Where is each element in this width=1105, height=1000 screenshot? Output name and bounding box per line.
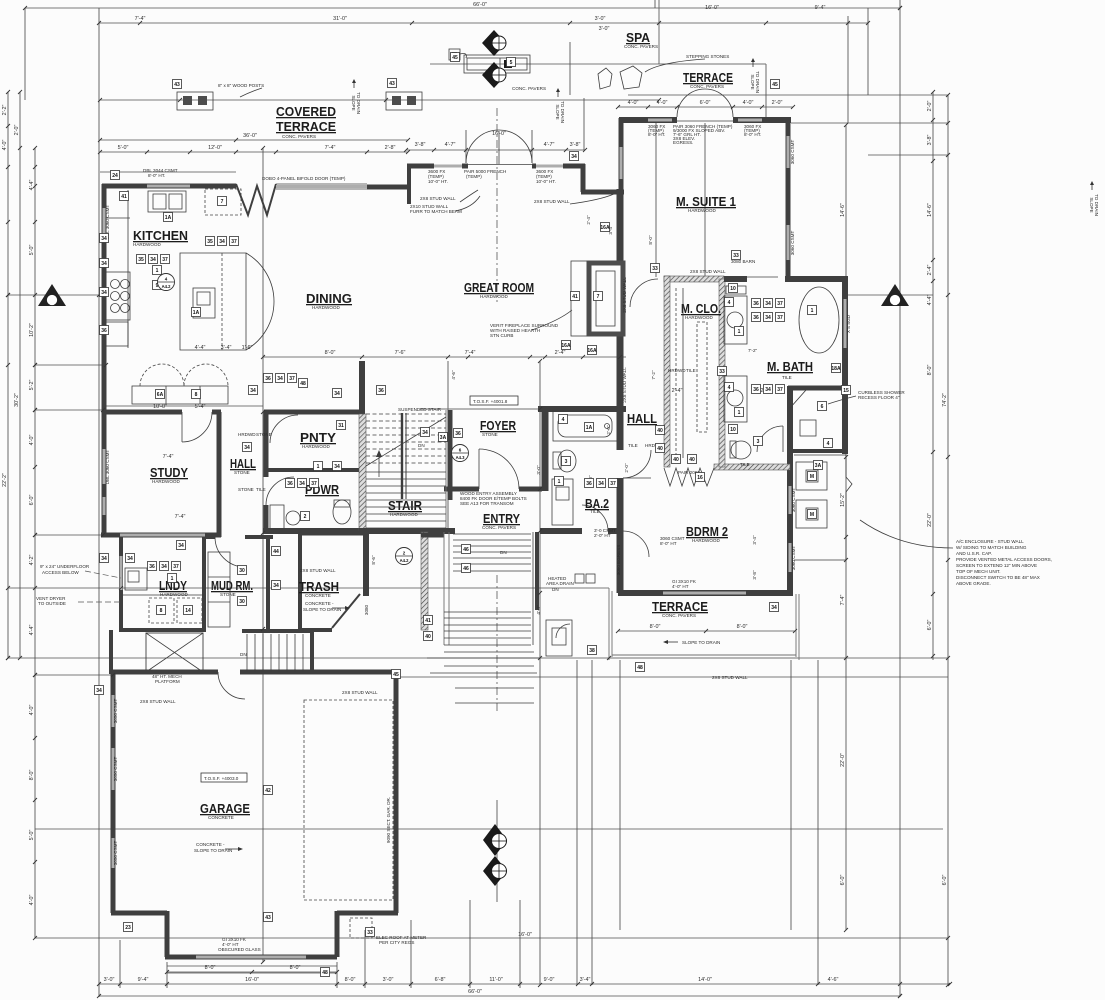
svg-text:7'-4": 7'-4" [325,145,336,151]
svg-text:3060 CSMT: 3060 CSMT [790,231,795,256]
svg-text:SLOPE: SLOPE [750,74,755,89]
svg-text:15: 15 [843,388,849,394]
svg-text:TO DRAIN: TO DRAIN [1094,194,1099,216]
svg-text:2'-8": 2'-8" [385,145,396,151]
svg-text:10'-0": 10'-0" [153,404,167,410]
svg-text:43: 43 [265,915,271,921]
svg-text:4'-0": 4'-0" [2,140,8,151]
svg-text:5: 5 [510,60,513,66]
svg-text:3050 CSMT: 3050 CSMT [113,841,118,866]
svg-text:14: 14 [185,608,191,614]
svg-text:48: 48 [322,970,328,976]
svg-text:30'-2": 30'-2" [14,393,20,407]
svg-text:W/ SIDING TO MATCH BUILDING: W/ SIDING TO MATCH BUILDING [956,545,1027,550]
svg-text:8: 8 [160,608,163,614]
svg-text:34: 34 [598,481,604,487]
svg-text:AREA DRAIN: AREA DRAIN [546,581,574,586]
svg-text:FOYER: FOYER [480,418,516,433]
svg-text:ACCESS BELOW: ACCESS BELOW [42,570,79,575]
svg-text:3080: 3080 [364,604,369,615]
svg-text:48: 48 [637,665,643,671]
svg-text:HARDWOOD: HARDWOOD [390,512,418,517]
svg-text:8'-0": 8'-0" [325,350,336,356]
svg-text:3'-0": 3'-0" [383,977,394,983]
svg-text:1A: 1A [165,215,172,221]
svg-text:1: 1 [738,329,741,335]
svg-text:TO DRAIN: TO DRAIN [560,101,565,123]
svg-text:X'S SGD: X'S SGD [846,314,851,333]
svg-text:3: 3 [565,459,568,465]
svg-text:34: 34 [101,261,107,267]
svg-text:MUD RM.: MUD RM. [211,578,253,593]
svg-text:2'-0": 2'-0" [772,100,783,106]
svg-text:4'-6": 4'-6" [451,370,456,380]
svg-text:HRDWD: HRDWD [668,368,686,373]
svg-text:6'-8": 6'-8" [435,977,446,983]
svg-text:2'-0": 2'-0" [14,125,20,136]
svg-text:DN: DN [418,443,425,448]
svg-text:45: 45 [393,672,399,678]
svg-text:34: 34 [277,376,283,382]
svg-text:TILE: TILE [590,509,600,514]
svg-text:ENTRY: ENTRY [483,511,520,526]
svg-text:CONCRETE -: CONCRETE - [305,601,334,606]
svg-text:36: 36 [101,328,107,334]
svg-text:16'-0": 16'-0" [245,977,259,983]
svg-text:STONE: STONE [234,470,250,475]
svg-text:36: 36 [149,564,155,570]
svg-text:SLOPE: SLOPE [555,104,560,119]
svg-text:7'-4": 7'-4" [163,454,174,460]
svg-text:(TEMP): (TEMP) [466,174,482,179]
svg-text:SEE A13 FOR TRANSOM: SEE A13 FOR TRANSOM [460,501,514,506]
svg-text:36: 36 [378,388,384,394]
svg-text:T.O.S.F. +4001.8: T.O.S.F. +4001.8 [473,399,508,404]
svg-text:34: 34 [765,315,771,321]
svg-text:37: 37 [311,481,317,487]
svg-text:36: 36 [265,376,271,382]
svg-text:4'-7": 4'-7" [544,142,555,148]
svg-text:2'-4": 2'-4" [672,388,683,394]
svg-text:STEPPING STONES: STEPPING STONES [686,54,729,59]
svg-text:36: 36 [753,315,759,321]
svg-text:PNTY: PNTY [300,430,336,445]
svg-text:4'-0": 4'-0" [29,435,35,446]
svg-text:10: 10 [730,286,736,292]
svg-text:5'-0": 5'-0" [118,145,129,151]
svg-text:36: 36 [586,481,592,487]
svg-text:16A: 16A [600,225,610,231]
svg-text:TOP OF MECH UNIT.: TOP OF MECH UNIT. [956,569,1001,574]
svg-text:46: 46 [463,566,469,572]
svg-text:3A: 3A [815,463,822,469]
svg-text:24: 24 [112,173,118,179]
svg-text:BDRM 2: BDRM 2 [686,524,728,539]
svg-text:HARDWOOD: HARDWOOD [302,444,330,449]
svg-text:HRDWD: HRDWD [238,432,256,437]
svg-text:4'-0": 4'-0" [657,100,668,106]
svg-text:14'-6": 14'-6" [840,203,846,217]
svg-text:CONC. PAVERS: CONC. PAVERS [624,44,658,49]
svg-text:2'-4": 2'-4" [927,265,933,276]
svg-text:RECESS FLOOR 4": RECESS FLOOR 4" [858,395,900,400]
svg-text:2: 2 [304,514,307,520]
svg-text:TILE: TILE [256,487,266,492]
svg-text:14'-0": 14'-0" [698,977,712,983]
svg-text:18A: 18A [831,366,841,372]
svg-text:14'-6": 14'-6" [927,203,933,217]
svg-text:CONC. PAVERS: CONC. PAVERS [512,86,546,91]
svg-text:33: 33 [652,266,658,272]
svg-text:M. BATH: M. BATH [767,359,813,374]
svg-text:40: 40 [689,457,695,463]
svg-text:2'-0": 2'-0" [927,101,933,112]
svg-text:35: 35 [207,239,213,245]
svg-text:CONCRETE -: CONCRETE - [196,842,225,847]
svg-text:36: 36 [287,481,293,487]
svg-text:37: 37 [289,376,295,382]
svg-text:HARDWOOD: HARDWOOD [685,315,713,320]
svg-text:HARDWOOD: HARDWOOD [480,294,508,299]
svg-text:46: 46 [463,547,469,553]
svg-text:DN: DN [240,652,247,657]
svg-text:1: 1 [811,308,814,314]
svg-text:8'-0" HT: 8'-0" HT [660,541,677,546]
svg-text:7'-4": 7'-4" [840,595,846,606]
svg-text:SPA: SPA [626,30,651,45]
svg-text:48: 48 [300,381,306,387]
svg-text:HARDWOOD: HARDWOOD [152,479,180,484]
svg-text:37: 37 [173,564,179,570]
svg-text:T.O.S.F. +4003.0: T.O.S.F. +4003.0 [204,776,239,781]
svg-text:34: 34 [334,464,340,470]
svg-text:3'-0": 3'-0" [536,465,541,475]
svg-text:STONE: STONE [482,432,498,437]
svg-text:34: 34 [765,301,771,307]
svg-text:16'-0": 16'-0" [518,932,532,938]
svg-text:3060 CSMT: 3060 CSMT [791,546,796,571]
svg-text:3'-8": 3'-8" [752,570,757,580]
svg-text:10'-0" HT.: 10'-0" HT. [428,179,448,184]
svg-text:M. SUITE 1: M. SUITE 1 [676,194,736,209]
svg-text:TERRACE: TERRACE [683,70,733,85]
svg-text:CONC. PAVERS: CONC. PAVERS [282,134,316,139]
svg-text:16A: 16A [587,348,597,354]
svg-text:9" x 24" UNDERFLOOR: 9" x 24" UNDERFLOOR [40,564,90,569]
svg-text:TERRACE: TERRACE [276,119,336,134]
svg-text:10'-2": 10'-2" [29,323,35,337]
svg-text:34: 34 [150,257,156,263]
svg-text:8'-0": 8'-0" [650,624,661,630]
svg-text:7'-4": 7'-4" [175,514,186,520]
svg-text:M: M [810,512,814,518]
svg-text:HALL: HALL [230,456,256,471]
svg-text:30: 30 [239,568,245,574]
svg-text:STUDY: STUDY [150,465,188,480]
svg-text:22'-0": 22'-0" [840,753,846,767]
svg-text:12'-0": 12'-0" [208,145,222,151]
svg-text:CONC. PAVERS: CONC. PAVERS [482,525,516,530]
svg-text:PROVIDE VENTED METAL ACCESS DO: PROVIDE VENTED METAL ACCESS DOORS, [956,557,1052,562]
svg-text:37: 37 [777,301,783,307]
svg-text:7'-2": 7'-2" [651,370,656,380]
svg-text:TILE: TILE [740,462,750,467]
svg-text:STONE: STONE [220,592,236,597]
svg-text:34: 34 [161,564,167,570]
svg-text:3'-8": 3'-8" [570,142,581,148]
svg-text:CONCRETE: CONCRETE [305,593,331,598]
svg-text:7: 7 [597,294,600,300]
svg-text:34: 34 [101,236,107,242]
svg-text:2X8 STUD WALL: 2X8 STUD WALL [534,199,570,204]
svg-text:4: 4 [728,385,731,391]
svg-text:4: 4 [827,441,830,447]
svg-text:37: 37 [777,315,783,321]
svg-text:TO DRAIN: TO DRAIN [356,92,361,114]
svg-text:A/C ENCLOSURE - STUD WALL: A/C ENCLOSURE - STUD WALL [956,539,1024,544]
svg-text:4'-2": 4'-2" [29,555,35,566]
svg-text:3: 3 [757,439,760,445]
svg-text:DN: DN [500,550,507,555]
svg-text:44: 44 [273,549,279,555]
svg-text:34: 34 [422,430,428,436]
svg-text:5'-0": 5'-0" [29,830,35,841]
svg-text:4'-0": 4'-0" [536,605,541,615]
svg-text:HARDWOOD: HARDWOOD [692,538,720,543]
svg-text:15'-2": 15'-2" [840,493,846,507]
svg-text:OBSCURED GLASS: OBSCURED GLASS [218,947,261,952]
svg-text:5'-4": 5'-4" [195,404,206,410]
svg-text:SUSPENDED STAIR: SUSPENDED STAIR [398,407,442,412]
svg-text:34: 34 [178,543,184,549]
svg-text:31'-0": 31'-0" [333,16,347,22]
svg-text:34: 34 [771,605,777,611]
svg-text:4'-7": 4'-7" [445,142,456,148]
svg-text:3060 CSMT: 3060 CSMT [790,140,795,165]
svg-text:DISCONNECT SWITCH TO BE 48" MA: DISCONNECT SWITCH TO BE 48" MAX [956,575,1040,580]
svg-text:34: 34 [273,583,279,589]
svg-text:3050 CSMT: 3050 CSMT [113,757,118,782]
svg-text:16A: 16A [561,343,571,349]
svg-text:2X8 STUD WALL: 2X8 STUD WALL [622,277,627,313]
svg-text:TO DRAIN: TO DRAIN [755,71,760,93]
svg-text:2X8 STUD WALL: 2X8 STUD WALL [140,699,176,704]
svg-text:3'-8": 3'-8" [927,135,933,146]
svg-text:TILE: TILE [628,443,638,448]
svg-text:4: 4 [562,417,565,423]
svg-text:4'-4": 4'-4" [29,180,35,191]
svg-text:41: 41 [121,194,127,200]
svg-text:2X8 STUD WALL: 2X8 STUD WALL [622,367,627,403]
svg-text:4'-0": 4'-0" [29,705,35,716]
svg-text:8'-0": 8'-0" [29,770,35,781]
svg-text:36: 36 [455,431,461,437]
svg-text:40: 40 [657,428,663,434]
svg-text:5'-0": 5'-0" [29,245,35,256]
svg-text:3060 CSMT: 3060 CSMT [791,488,796,513]
svg-text:8'-0": 8'-0" [648,235,653,245]
svg-text:TERRACE: TERRACE [652,599,708,614]
svg-text:TILE: TILE [686,368,696,373]
svg-text:4'-4": 4'-4" [29,625,35,636]
svg-text:HALL: HALL [627,411,657,426]
svg-text:TO OUTSIDE: TO OUTSIDE [38,601,66,606]
svg-text:FURR TO MATCH BEAM: FURR TO MATCH BEAM [410,209,462,214]
svg-text:7'-4": 7'-4" [135,16,146,22]
svg-text:34: 34 [101,556,107,562]
svg-text:STN CURB: STN CURB [490,333,513,338]
svg-text:2'-2": 2'-2" [2,105,8,116]
svg-text:34: 34 [96,688,102,694]
svg-text:A4.2: A4.2 [162,284,172,289]
svg-text:3'-0": 3'-0" [104,977,115,983]
svg-text:TRASH: TRASH [299,579,339,594]
svg-text:GARAGE: GARAGE [200,801,250,816]
svg-text:34: 34 [127,556,133,562]
svg-text:2'-0": 2'-0" [624,463,629,473]
svg-text:8'-0": 8'-0" [290,965,301,971]
svg-text:9090 SECT. GAR. DR.: 9090 SECT. GAR. DR. [386,797,391,843]
svg-text:6'-0": 6'-0" [29,495,35,506]
svg-text:4: 4 [728,300,731,306]
svg-text:6'-0": 6'-0" [700,100,711,106]
svg-text:34: 34 [250,388,256,394]
svg-text:34: 34 [244,445,250,451]
svg-text:TILE: TILE [782,375,792,380]
svg-text:8'-0": 8'-0" [737,624,748,630]
svg-text:34: 34 [299,481,305,487]
svg-text:HARDWOOD: HARDWOOD [688,208,716,213]
svg-text:10: 10 [730,427,736,433]
svg-text:37: 37 [231,239,237,245]
svg-text:SCREEN TO EXTEND 12" MIN ABOVE: SCREEN TO EXTEND 12" MIN ABOVE [956,563,1037,568]
svg-text:40: 40 [425,634,431,640]
svg-text:23: 23 [125,925,131,931]
svg-text:3'-4": 3'-4" [752,535,757,545]
svg-text:CONC. PAVERS: CONC. PAVERS [690,84,724,89]
svg-text:16'-0": 16'-0" [705,5,719,11]
svg-text:3A: 3A [440,435,447,441]
svg-text:SLOPE: SLOPE [1089,197,1094,212]
svg-text:PLATFORM: PLATFORM [155,679,180,684]
svg-text:STONE: STONE [238,487,254,492]
svg-text:22'-0": 22'-0" [927,513,933,527]
svg-text:HARDWOOD: HARDWOOD [133,242,161,247]
svg-text:3'-0": 3'-0" [599,26,610,32]
svg-text:41: 41 [425,618,431,624]
svg-text:1: 1 [738,410,741,416]
svg-text:SLOPE: SLOPE [351,95,356,110]
svg-text:DOBO 4-PANEL BIFOLD DOOR (TEMP: DOBO 4-PANEL BIFOLD DOOR (TEMP) [262,176,346,181]
svg-text:8'-0" HT.: 8'-0" HT. [744,132,761,137]
svg-text:DINING: DINING [306,291,352,306]
svg-text:KITCHEN: KITCHEN [133,228,188,243]
svg-text:2X8 STUD WALL: 2X8 STUD WALL [690,269,726,274]
svg-text:6'-0": 6'-0" [942,875,948,886]
svg-text:2X8 STUD WALL: 2X8 STUD WALL [300,568,336,573]
svg-text:7'-6": 7'-6" [395,350,406,356]
svg-text:3050 CSMT: 3050 CSMT [113,699,118,724]
svg-text:6'-0": 6'-0" [840,875,846,886]
svg-text:6: 6 [821,404,824,410]
svg-text:1: 1 [558,479,561,485]
svg-text:7'-4": 7'-4" [465,350,476,356]
svg-text:9'-0": 9'-0" [544,977,555,983]
svg-text:33: 33 [719,369,725,375]
svg-text:6'-0": 6'-0" [927,620,933,631]
svg-text:4'-0" HT: 4'-0" HT [672,584,689,589]
svg-text:2'-0" HT: 2'-0" HT [594,533,611,538]
svg-text:8'-0": 8'-0" [345,977,356,983]
svg-text:ABOVE GRADE.: ABOVE GRADE. [956,581,991,586]
svg-text:DBL 3060 CSMT: DBL 3060 CSMT [105,450,110,485]
svg-text:16'-0": 16'-0" [492,131,506,137]
svg-text:4'-0": 4'-0" [628,100,639,106]
svg-text:38: 38 [589,648,595,654]
svg-text:CONC. PAVERS: CONC. PAVERS [662,613,696,618]
svg-text:42: 42 [265,788,271,794]
svg-text:36: 36 [753,387,759,393]
svg-text:PER CITY REGS: PER CITY REGS [379,940,414,945]
svg-text:8'-0": 8'-0" [927,365,933,376]
svg-text:2'-4": 2'-4" [555,350,566,356]
svg-text:41: 41 [572,294,578,300]
svg-text:11'-0": 11'-0" [489,977,502,983]
svg-text:2'-4": 2'-4" [586,215,591,225]
svg-text:7'-2": 7'-2" [748,348,758,353]
svg-text:40: 40 [657,446,663,452]
svg-text:30: 30 [239,599,245,605]
svg-text:HARDWOOD: HARDWOOD [160,592,188,597]
svg-text:4'-4": 4'-4" [195,345,206,351]
svg-text:1: 1 [171,576,174,582]
svg-text:M. CLO.: M. CLO. [681,301,721,316]
svg-text:31: 31 [338,423,344,429]
svg-text:34: 34 [571,154,577,160]
svg-text:10'-0" HT.: 10'-0" HT. [536,179,556,184]
svg-text:GREAT ROOM: GREAT ROOM [464,280,534,295]
svg-text:33: 33 [733,253,739,259]
svg-text:74'-2": 74'-2" [942,393,948,407]
svg-text:1A: 1A [193,310,200,316]
svg-text:CONCRETE: CONCRETE [208,815,234,820]
svg-text:4'-4": 4'-4" [927,295,933,306]
svg-text:7: 7 [221,199,224,205]
svg-text:8: 8 [195,392,198,398]
svg-text:4'-6": 4'-6" [828,977,839,983]
svg-text:22'-2": 22'-2" [2,473,8,487]
svg-text:5'-2": 5'-2" [29,380,35,391]
svg-text:37: 37 [610,481,616,487]
svg-text:45: 45 [452,55,458,61]
svg-text:3'-8": 3'-8" [415,142,426,148]
svg-text:1: 1 [317,464,320,470]
svg-text:2X8 STUD WALL: 2X8 STUD WALL [342,690,378,695]
svg-text:SLOPE TO DRAIN: SLOPE TO DRAIN [682,640,720,645]
svg-text:2X8 STUD WALL: 2X8 STUD WALL [712,675,748,680]
svg-text:4'-0": 4'-0" [29,895,35,906]
svg-text:9'-4": 9'-4" [815,5,826,11]
svg-text:8'-0" HT.: 8'-0" HT. [148,173,165,178]
svg-text:35: 35 [138,257,144,263]
svg-text:6A: 6A [157,392,164,398]
svg-text:COVERED: COVERED [276,104,336,119]
svg-text:34: 34 [101,290,107,296]
svg-text:STONE: STONE [256,432,272,437]
svg-text:M: M [810,474,814,480]
svg-text:A4.3: A4.3 [456,455,466,460]
svg-text:33: 33 [367,930,373,936]
